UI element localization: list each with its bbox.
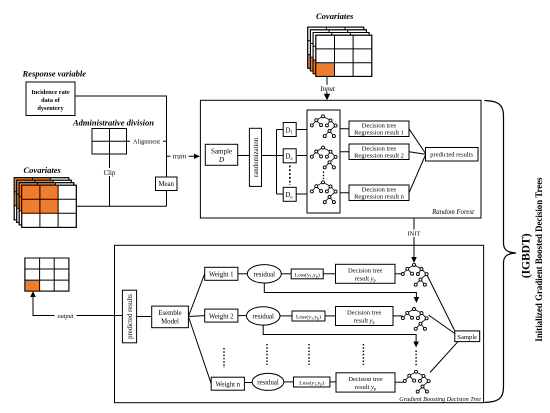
- svg-text:Decision tree: Decision tree: [348, 267, 383, 274]
- svg-text:Decision tree: Decision tree: [348, 376, 383, 383]
- ellipse: residual 1: [247, 265, 281, 283]
- box: tree container: [307, 110, 340, 213]
- wire: residual2 to Loss2: [280, 315, 292, 317]
- dotted ellipsis between tree2 and tree3: [323, 172, 325, 180]
- row 3: wire Weightn to residual3: [244, 382, 252, 384]
- ellipse: residual n: [252, 373, 284, 390]
- svg-text:Administrative division: Administrative division: [72, 118, 154, 128]
- box: Sample (GBDT): [455, 331, 480, 342]
- wire: randomization to D-box bus: [262, 130, 284, 195]
- box: Decision tree result yp row1: [336, 264, 396, 283]
- grid stack: covariates (top, orange bottom-left cell): [308, 27, 372, 76]
- box: Decision tree Regression result 2: [349, 144, 409, 160]
- svg-text:Input: Input: [319, 86, 335, 93]
- box: Weight 2: [205, 309, 238, 322]
- row 1: wire Weight1 to residual: [238, 273, 247, 275]
- tree 2 (random forest): [310, 146, 337, 169]
- box: Random Forest container: [200, 100, 481, 218]
- svg-text:Weight 2: Weight 2: [209, 313, 234, 320]
- svg-text:Sample: Sample: [211, 147, 232, 155]
- svg-text:Loss(y1,yp): Loss(y1,yp): [296, 313, 321, 320]
- svg-text:Model: Model: [161, 318, 179, 325]
- box: Mean: [156, 177, 178, 191]
- wires: tree container to regression result boxes: [340, 129, 349, 193]
- box: Incidence rate data of dysentery: [26, 82, 75, 116]
- wire: result box3 to tree3: [395, 381, 405, 383]
- dotted ellipsis between D2 and Dn: [289, 166, 291, 186]
- dotted ellipsis: residual column: [266, 344, 268, 365]
- svg-text:Weight 1: Weight 1: [209, 272, 234, 279]
- wires: D boxes to tree container: [296, 130, 307, 195]
- svg-text:Decision tree: Decision tree: [347, 310, 382, 317]
- ellipse: residual 2: [246, 307, 280, 325]
- wire: residual1 cascade to tree2: [264, 283, 419, 303]
- svg-text:Initialized Gradient Boosted D: Initialized Gradient Boosted Decision Tr…: [534, 177, 544, 342]
- box: administrative division grid: [92, 129, 127, 155]
- node: Initialized Gradient Boosted Decision Trees label: [534, 177, 544, 342]
- box: Loss(y1,yp) row2: [292, 311, 325, 321]
- svg-text:Covariates: Covariates: [24, 165, 62, 175]
- box: D1: [283, 123, 296, 137]
- grid: output covariate grid (orange bottom-left cell): [25, 258, 69, 291]
- box: randomization: [249, 128, 261, 186]
- node: Response variable label: [22, 69, 87, 79]
- box: Weight 1: [205, 267, 238, 280]
- svg-text:Regression result n: Regression result n: [354, 194, 405, 201]
- svg-text:Random Forest: Random Forest: [431, 209, 475, 216]
- box: Dn: [283, 187, 296, 201]
- wire: residual2 cascade to tree3 (arrow + dotted): [263, 325, 419, 366]
- svg-text:Decision tree: Decision tree: [362, 187, 397, 194]
- svg-text:train: train: [173, 154, 187, 161]
- svg-text:result yp: result yp: [355, 384, 377, 391]
- box: D2: [283, 149, 296, 163]
- wire+arrow: Input into Random Forest: [319, 76, 336, 100]
- wire: Loss3 to result box3: [330, 381, 336, 383]
- box: predicted results (random forest): [426, 148, 479, 162]
- wire+arrow: output from predicted results to grid: [30, 291, 122, 320]
- dotted ellipsis: result box column: [362, 344, 364, 365]
- tree 2 (GBDT): [401, 308, 428, 331]
- svg-text:output: output: [57, 313, 73, 320]
- svg-text:predicted results: predicted results: [430, 152, 473, 159]
- svg-text:residual: residual: [254, 271, 276, 278]
- box: Esemble Model: [152, 306, 189, 328]
- svg-text:Covariates: Covariates: [316, 11, 354, 21]
- tree 3 (random forest): [310, 181, 337, 204]
- box: Decision tree result yp row3: [336, 373, 395, 392]
- svg-text:Loss(y1,yp): Loss(y1,yp): [299, 379, 324, 386]
- wire: Sample D to randomization: [238, 155, 250, 157]
- svg-text:D: D: [218, 156, 224, 164]
- svg-text:Regression result 1: Regression result 1: [354, 130, 404, 137]
- wire: Alignment link: [127, 138, 167, 146]
- node: Administrative division label: [72, 118, 154, 128]
- wire: predicted results to Esemble Model: [137, 316, 152, 318]
- node: Covariates label (top): [316, 11, 354, 21]
- tree 3 (GBDT): [403, 370, 430, 393]
- svg-text:dysentery: dysentery: [37, 105, 64, 112]
- wire: residual1 to Loss1: [281, 273, 291, 275]
- svg-text:Alignment: Alignment: [133, 139, 160, 146]
- svg-text:Regression result 2: Regression result 2: [354, 153, 404, 160]
- svg-text:Esemble: Esemble: [158, 310, 181, 317]
- svg-text:randomization: randomization: [253, 137, 260, 177]
- box: predicted results (vertical, GBDT): [122, 290, 136, 343]
- svg-text:Loss(y1,yp): Loss(y1,yp): [295, 271, 320, 278]
- wire: covariates to mean junction: [76, 205, 166, 207]
- svg-text:result yp: result yp: [354, 318, 376, 325]
- wires: results converge to predicted results: [409, 129, 426, 193]
- svg-text:Decision tree: Decision tree: [362, 146, 397, 153]
- wires: trees to Sample box: [428, 276, 459, 373]
- svg-text:residual: residual: [252, 313, 274, 320]
- svg-text:residual: residual: [257, 379, 279, 386]
- node: (IGBDT) label: [521, 233, 533, 278]
- tree 1 (random forest): [310, 115, 337, 138]
- box: Weight n: [211, 377, 244, 390]
- row 2: wire Weight2 to residual2: [238, 315, 247, 317]
- dotted ellipsis between Weight 2 and Weight n: [223, 348, 225, 368]
- svg-text:Mean: Mean: [158, 181, 174, 188]
- box: Loss(y1,yp) row3: [294, 377, 330, 387]
- wire: Loss2 to result box2: [325, 315, 336, 317]
- wire+arrow: INIT: [406, 218, 423, 263]
- wire: residual3 to Loss3: [284, 381, 294, 383]
- svg-text:Clip: Clip: [104, 170, 116, 177]
- box: Gradient Boosting Decision Tree container: [115, 245, 484, 402]
- svg-text:Sample: Sample: [457, 334, 477, 341]
- wire: response variable to train/mean junction: [75, 96, 167, 206]
- tree 1 (GBDT): [401, 263, 428, 286]
- box: Sample D: [205, 144, 237, 165]
- svg-text:data of: data of: [41, 97, 61, 104]
- svg-text:Decision tree: Decision tree: [362, 123, 397, 130]
- box: Decision tree Regression result n: [349, 185, 409, 201]
- box: Loss(y1,yp) row1: [291, 269, 323, 279]
- wire: Clip link: [101, 154, 118, 206]
- wire: result box2 to tree2: [393, 315, 403, 317]
- svg-text:Weight n: Weight n: [216, 382, 241, 389]
- wire+arrow: train into Random Forest: [167, 153, 201, 161]
- brace: IGBDT grouping: [485, 101, 517, 403]
- svg-text:Response variable: Response variable: [22, 69, 87, 79]
- svg-text:result yp: result yp: [355, 275, 377, 282]
- box: Decision tree result yp row2: [336, 307, 394, 326]
- node: Covariates label (bottom-left): [24, 165, 62, 175]
- wire: Loss1 to result box1: [323, 273, 335, 275]
- box: Decision tree Regression result 1: [349, 121, 409, 137]
- wires: Esemble Model to Weight boxes: [188, 274, 211, 384]
- svg-text:predicted results: predicted results: [127, 294, 134, 339]
- svg-text:Gradient Boosting Decision Tre: Gradient Boosting Decision Tree: [399, 396, 481, 403]
- dotted ellipsis: Loss column: [308, 344, 310, 365]
- svg-text:INIT: INIT: [408, 231, 421, 238]
- wire: result box1 to tree: [395, 273, 403, 275]
- svg-text:Incidence rate: Incidence rate: [31, 89, 69, 96]
- svg-text:(IGBDT): (IGBDT): [521, 233, 533, 278]
- grid stack: covariates input (bottom-left, orange 2x2 top-left): [14, 178, 76, 228]
